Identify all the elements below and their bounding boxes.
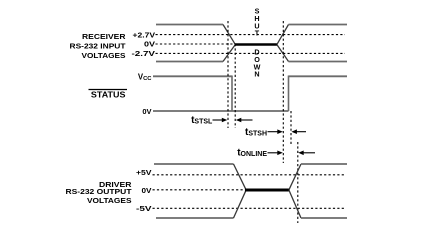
wire tONLINE right arrow bbox=[301, 152, 316, 154]
wire STATUS high level right bbox=[289, 75, 348, 77]
svg-text:RS-232 OUTPUT: RS-232 OUTPUT bbox=[66, 187, 132, 196]
wire driver slant top-right bbox=[289, 164, 301, 190]
label DRIVER RS-232 OUTPUT VOLTAGES bbox=[66, 180, 133, 205]
wire receiver bottom rail left bbox=[156, 61, 223, 63]
svg-text:+5V: +5V bbox=[136, 168, 152, 177]
wire receiver bottom rail right bbox=[289, 61, 348, 63]
wire tSTSH right arrow bbox=[294, 131, 307, 133]
wire receiver slant bottom-right bbox=[277, 45, 289, 62]
label DOWN vertical letters bbox=[254, 47, 261, 78]
dashed level -5V bbox=[153, 207, 346, 209]
node dashed guide v5 driver online bbox=[297, 142, 299, 223]
wire STATUS 0V level bbox=[153, 110, 289, 112]
node dashed guide v3 shutdown exit bbox=[282, 21, 284, 163]
wire driver slant bottom-right bbox=[289, 190, 301, 218]
wire driver bottom rail left bbox=[156, 217, 234, 219]
wire receiver slant bottom-left bbox=[223, 45, 235, 62]
dashed level -2.7V bbox=[156, 52, 346, 54]
svg-text:STATUS: STATUS bbox=[91, 91, 126, 100]
wire driver shutdown 0V thick segment bbox=[245, 189, 290, 192]
wire tSTSL right arrow bbox=[238, 119, 253, 121]
wire STATUS rising edge bbox=[288, 76, 290, 112]
wire STATUS falling edge bbox=[231, 76, 233, 112]
node dashed guide v2 receiver 0V crossing bbox=[234, 44, 236, 128]
svg-text:N: N bbox=[254, 70, 259, 79]
dashed level +2.7V bbox=[156, 34, 346, 36]
wire tSTSH left arrow bbox=[268, 131, 280, 133]
wire driver top rail left bbox=[154, 163, 234, 165]
wire receiver slant top-right bbox=[277, 25, 289, 45]
wire tONLINE left arrow bbox=[268, 152, 280, 154]
svg-text:0V: 0V bbox=[142, 107, 151, 116]
dashed level 0V receiver bbox=[156, 43, 235, 45]
dashed level 0V driver bbox=[153, 189, 246, 191]
svg-text:0V: 0V bbox=[142, 186, 152, 195]
wire driver bottom rail right bbox=[301, 217, 347, 219]
wire driver slant bottom-left bbox=[234, 190, 247, 218]
label RECEIVER RS-232 INPUT VOLTAGES bbox=[70, 32, 127, 60]
wire STATUS Vcc high level bbox=[153, 75, 232, 77]
svg-text:RS-232 INPUT: RS-232 INPUT bbox=[70, 41, 126, 50]
label STATUS overline bbox=[89, 89, 128, 91]
svg-text:VOLTAGES: VOLTAGES bbox=[87, 196, 132, 205]
dashed level +5V bbox=[153, 174, 346, 176]
svg-text:RECEIVER: RECEIVER bbox=[82, 32, 126, 41]
svg-text:0V: 0V bbox=[144, 40, 155, 49]
svg-text:VOLTAGES: VOLTAGES bbox=[82, 51, 126, 60]
node dashed guide v4 status rise bbox=[290, 111, 292, 146]
wire driver top rail right bbox=[301, 163, 347, 165]
wire receiver top rail right bbox=[289, 24, 348, 26]
wire receiver top rail left bbox=[156, 24, 223, 26]
svg-text:-5V: -5V bbox=[136, 204, 152, 213]
label SHUT vertical letters bbox=[254, 7, 259, 38]
svg-text:-2.7V: -2.7V bbox=[132, 49, 156, 58]
wire tSTSL left arrow bbox=[213, 119, 225, 121]
wire driver slant top-left bbox=[234, 164, 247, 190]
wire receiver slant top-left bbox=[223, 25, 235, 45]
wire receiver shutdown 0V thick segment bbox=[235, 43, 278, 46]
node dashed guide v1 shutdown entry bbox=[227, 21, 229, 128]
svg-text:+2.7V: +2.7V bbox=[133, 30, 156, 39]
svg-text:T: T bbox=[255, 29, 260, 38]
